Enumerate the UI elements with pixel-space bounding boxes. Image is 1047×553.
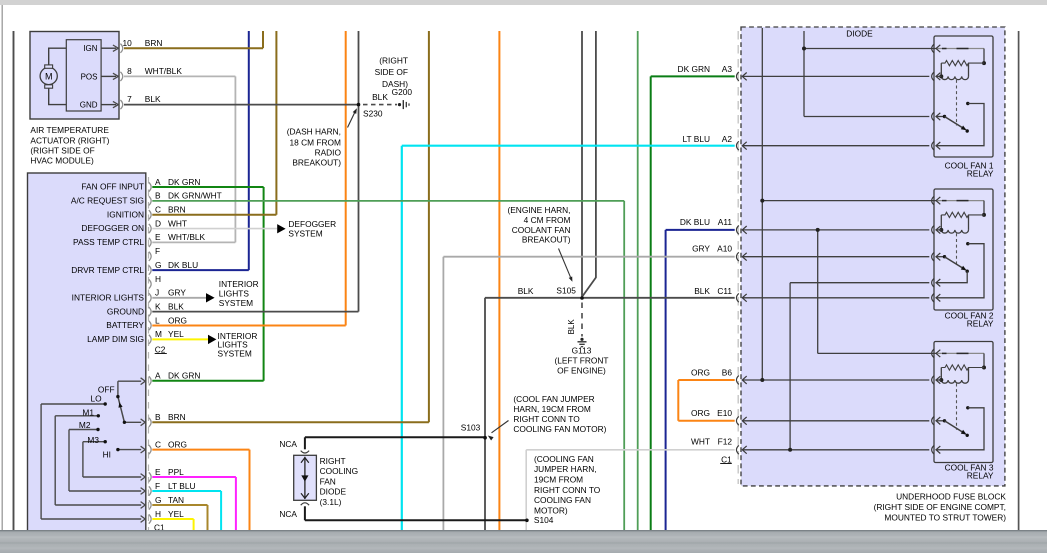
svg-text:DIODE: DIODE [846,28,873,38]
svg-text:WHT/BLK: WHT/BLK [168,232,206,242]
svg-text:NCA: NCA [279,439,297,449]
svg-text:G: G [155,495,162,505]
svg-text:SYSTEM: SYSTEM [219,298,253,308]
svg-text:BREAKOUT): BREAKOUT) [292,158,341,168]
svg-text:COOLING FAN MOTOR): COOLING FAN MOTOR) [513,424,606,434]
svg-text:M2: M2 [79,420,91,430]
svg-text:COOLING FAN: COOLING FAN [534,495,591,505]
svg-text:A/C REQUEST SIG: A/C REQUEST SIG [71,196,144,206]
svg-text:(COOLING FAN: (COOLING FAN [534,454,594,464]
svg-text:DEFOGGER ON: DEFOGGER ON [81,223,144,233]
svg-text:YEL: YEL [168,509,184,519]
svg-text:COOLING: COOLING [320,466,358,476]
svg-text:A2: A2 [722,134,733,144]
svg-text:LIGHTS: LIGHTS [219,289,250,299]
svg-text:BRN: BRN [168,205,186,215]
svg-text:ORG: ORG [691,368,710,378]
svg-text:A10: A10 [717,244,732,254]
svg-text:IGN: IGN [83,44,97,53]
svg-text:7: 7 [127,94,132,104]
svg-text:M1: M1 [82,408,94,418]
svg-text:HI: HI [103,449,111,459]
svg-text:H: H [155,274,161,284]
svg-text:DRVR TEMP CTRL: DRVR TEMP CTRL [71,265,144,275]
svg-text:(LEFT FRONT: (LEFT FRONT [554,356,608,366]
svg-text:COOLANT FAN: COOLANT FAN [512,225,571,235]
svg-text:PPL: PPL [168,467,184,477]
svg-text:INTERIOR LIGHTS: INTERIOR LIGHTS [72,293,145,303]
svg-text:J: J [155,288,159,298]
svg-text:SYSTEM: SYSTEM [218,348,252,358]
svg-text:IGNITION: IGNITION [107,209,144,219]
svg-text:BATTERY: BATTERY [106,320,144,330]
svg-text:A: A [155,177,161,187]
svg-text:D: D [155,218,161,228]
svg-text:BLK: BLK [145,94,161,104]
svg-text:NCA: NCA [279,509,297,519]
svg-text:LT BLU: LT BLU [168,481,196,491]
svg-text:LAMP DIM SIG: LAMP DIM SIG [87,334,144,344]
svg-text:RIGHT CONN TO: RIGHT CONN TO [534,485,601,495]
svg-text:WHT: WHT [691,437,710,447]
svg-text:(RIGHT: (RIGHT [379,55,408,65]
svg-text:RADIO: RADIO [315,147,342,157]
svg-text:INTERIOR: INTERIOR [219,279,259,289]
svg-text:L: L [155,315,160,325]
svg-text:ORG: ORG [168,315,187,325]
svg-text:G113: G113 [572,346,592,356]
svg-text:DK GRN: DK GRN [168,177,200,187]
svg-text:4 CM FROM: 4 CM FROM [524,215,571,225]
svg-text:ORG: ORG [691,408,710,418]
svg-text:S105: S105 [556,286,576,296]
svg-text:(RIGHT SIDE OF ENGINE COMPT,: (RIGHT SIDE OF ENGINE COMPT, [874,502,1006,512]
svg-text:HARN, 19CM FROM: HARN, 19CM FROM [513,404,590,414]
svg-text:DIODE: DIODE [320,487,347,497]
svg-text:C2: C2 [155,344,166,354]
svg-text:S230: S230 [363,109,383,119]
svg-text:E: E [155,467,161,477]
svg-text:LT BLU: LT BLU [682,134,710,144]
svg-text:A3: A3 [722,64,733,74]
svg-text:B: B [155,412,161,422]
svg-text:RELAY: RELAY [967,319,994,329]
svg-text:JUMPER HARN,: JUMPER HARN, [534,464,597,474]
svg-text:GROUND: GROUND [107,306,144,316]
svg-text:BLK: BLK [567,319,576,335]
svg-text:DK GRN: DK GRN [678,64,710,74]
svg-text:(RIGHT SIDE OF: (RIGHT SIDE OF [30,146,94,156]
svg-text:E10: E10 [717,408,732,418]
svg-text:RELAY: RELAY [967,169,994,179]
svg-text:E: E [155,232,161,242]
svg-text:SIDE OF: SIDE OF [375,67,408,77]
svg-text:ACTUATOR (RIGHT): ACTUATOR (RIGHT) [30,135,109,145]
svg-text:F: F [155,481,160,491]
svg-text:(ENGINE HARN,: (ENGINE HARN, [507,205,570,215]
svg-text:DK GRN: DK GRN [168,371,200,381]
svg-text:18 CM FROM: 18 CM FROM [290,137,342,147]
svg-text:BREAKOUT): BREAKOUT) [522,235,571,245]
svg-text:A: A [155,371,161,381]
svg-text:G200: G200 [392,87,413,97]
svg-text:RELAY: RELAY [967,471,994,481]
svg-text:YEL: YEL [168,329,184,339]
svg-text:GND: GND [80,101,98,110]
svg-text:UNDERHOOD FUSE BLOCK: UNDERHOOD FUSE BLOCK [896,491,1006,501]
svg-text:M: M [45,72,53,82]
svg-text:DEFOGGER: DEFOGGER [288,219,336,229]
svg-text:A11: A11 [718,217,733,227]
svg-text:BRN: BRN [145,38,163,48]
svg-text:BLK: BLK [518,286,534,296]
svg-text:SYSTEM: SYSTEM [288,229,322,239]
svg-text:PASS TEMP CTRL: PASS TEMP CTRL [73,237,144,247]
svg-text:DK GRN/WHT: DK GRN/WHT [168,191,222,201]
svg-text:BLK: BLK [168,301,184,311]
svg-text:DK BLU: DK BLU [168,260,198,270]
svg-text:MOTOR): MOTOR) [534,505,568,515]
svg-text:C: C [155,439,161,449]
svg-text:TAN: TAN [168,495,184,505]
svg-text:BRN: BRN [168,412,186,422]
svg-text:C1: C1 [721,454,732,464]
svg-text:FAN OFF INPUT: FAN OFF INPUT [81,182,144,192]
svg-text:B6: B6 [722,368,733,378]
svg-text:RIGHT: RIGHT [320,456,346,466]
svg-text:AIR TEMPERATURE: AIR TEMPERATURE [30,125,109,135]
svg-text:WHT/BLK: WHT/BLK [145,66,183,76]
svg-text:POS: POS [81,72,98,81]
svg-text:F12: F12 [718,437,733,447]
svg-text:C: C [155,205,161,215]
svg-text:10: 10 [123,38,133,48]
svg-text:GRY: GRY [168,288,186,298]
svg-text:8: 8 [127,66,132,76]
svg-text:RIGHT CONN TO: RIGHT CONN TO [513,414,580,424]
svg-text:DK BLU: DK BLU [680,217,710,227]
svg-text:ORG: ORG [168,439,187,449]
svg-text:K: K [155,301,161,311]
svg-text:M3: M3 [87,435,99,445]
svg-text:M: M [155,329,162,339]
svg-text:LO: LO [90,394,102,404]
svg-text:19CM FROM: 19CM FROM [534,474,583,484]
svg-text:BLK: BLK [372,92,388,102]
svg-text:HVAC MODULE): HVAC MODULE) [30,156,94,166]
svg-text:(DASH HARN,: (DASH HARN, [287,127,341,137]
svg-text:B: B [155,191,161,201]
svg-text:S103: S103 [461,423,481,433]
svg-text:OF ENGINE): OF ENGINE) [557,365,606,375]
svg-text:BLK: BLK [694,286,710,296]
svg-text:MOUNTED TO STRUT TOWER): MOUNTED TO STRUT TOWER) [884,512,1006,522]
svg-text:S104: S104 [534,515,554,525]
svg-text:G: G [155,260,162,270]
svg-text:F: F [155,246,160,256]
svg-text:(COOL FAN JUMPER: (COOL FAN JUMPER [513,394,594,404]
svg-text:C11: C11 [717,286,732,296]
svg-text:(3.1L): (3.1L) [320,497,342,507]
svg-text:FAN: FAN [320,477,336,487]
svg-text:WHT: WHT [168,218,187,228]
svg-text:H: H [155,509,161,519]
svg-text:GRY: GRY [692,244,710,254]
